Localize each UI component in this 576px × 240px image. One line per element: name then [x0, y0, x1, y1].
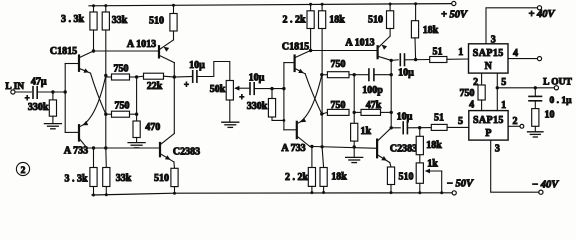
- wire: top supply rail (+50V): [89, 4, 452, 6]
- svg-text:3: 3: [491, 34, 496, 45]
- junction: R9 return at input line: [283, 119, 286, 122]
- wire: C7 to R28: [534, 101, 536, 109]
- svg-text:750: 750: [331, 100, 346, 111]
- resistor R16 510 (upper, emitter of Q7): [389, 4, 391, 11]
- svg-text:+ 40V: + 40V: [528, 9, 555, 20]
- junction: feedback column upper tap: [104, 74, 107, 77]
- svg-text:4: 4: [469, 100, 474, 111]
- wire: R27 to U2 pin4: [481, 100, 483, 111]
- wire: Q3 collector down to Q4 collector: [173, 63, 175, 134]
- svg-text:510: 510: [368, 14, 383, 25]
- svg-text:SAP15: SAP15: [473, 48, 504, 59]
- svg-text:L OUT: L OUT: [543, 78, 572, 88]
- junction: R26 18k tap: [418, 126, 421, 129]
- svg-text:18k: 18k: [426, 140, 442, 151]
- resistor R15 1k (to ground): [353, 112, 355, 123]
- svg-text:1k: 1k: [427, 158, 438, 169]
- junction: R24 18k tap: [414, 58, 417, 61]
- wire: R23 to U1 pin1: [447, 58, 469, 60]
- ground: below R7: [128, 143, 145, 148]
- svg-text:+: +: [239, 92, 244, 102]
- svg-text:1: 1: [501, 100, 506, 111]
- junction: R15 lead over collector wire: [353, 145, 356, 148]
- wire: stage1 input vertical (Q1 base to Q2 base): [64, 64, 66, 133]
- wire: node to Q7 base: [311, 50, 377, 52]
- wire: Q7 collector node to C5: [391, 59, 398, 62]
- ground: below R15: [346, 157, 363, 162]
- wire: base lead of Q5: [284, 62, 294, 64]
- ground: below R1: [44, 124, 61, 129]
- transistor Q4 C2383 (NPN driver, lower stage1): [160, 134, 174, 162]
- junction: feedback column lower tap: [104, 113, 107, 116]
- svg-text:P: P: [485, 128, 491, 139]
- wire: R11 down to stage2 feedback column: [321, 29, 323, 148]
- resistor R11 18k (upper): [321, 4, 323, 11]
- transistor Q2 A733 (PNP input, lower): [79, 121, 88, 148]
- transistor Q7 A1013 (PNP driver, stage2): [378, 36, 392, 60]
- wire: node to U-A1013 base (stage1): [94, 50, 159, 52]
- junction: Q1 collector / R2 / A1013 base node: [92, 49, 95, 52]
- transistor Q6 A733 (PNP input, stage2): [297, 118, 310, 147]
- wire: U1 pin5 to output node: [496, 73, 498, 88]
- svg-text:750: 750: [460, 88, 475, 99]
- junction: R11 at top rail: [321, 3, 324, 6]
- wire: crossover emitter Q5 to lower tap: [305, 74, 322, 114]
- wire: U2 pin3 to -40V: [491, 140, 539, 192]
- potentiometer VR2 1k (bias adjust): [416, 163, 423, 183]
- wire: Q8 collector node to C6: [391, 127, 400, 129]
- wire: U1 pin4 to terminal: [508, 58, 537, 60]
- svg-text:SAP15: SAP15: [473, 115, 504, 126]
- wire: crossover emitter Q6 to upper tap: [298, 75, 322, 123]
- svg-text:4: 4: [513, 48, 518, 59]
- potentiometer VR1 50k (volume): [226, 81, 233, 101]
- wire: U2 pin2 to terminal: [508, 125, 520, 127]
- junction: R4/R6/R5 node: [135, 75, 138, 78]
- svg-text:330k: 330k: [28, 102, 49, 113]
- svg-text:330k: 330k: [247, 101, 268, 112]
- terminal: U2 pin2: [520, 124, 524, 128]
- junction: zobel tap: [534, 86, 537, 89]
- svg-text:C1815: C1815: [50, 46, 77, 57]
- wire: U1 pin2 to R27: [481, 73, 483, 85]
- svg-text:5: 5: [458, 116, 463, 127]
- junction: stage1 output node (22k / C2 tap): [173, 75, 176, 78]
- resistor R17 3.3k (lower): [93, 148, 95, 168]
- transistor Q3 A1013 (PNP driver, upper): [159, 40, 174, 63]
- capacitor C5 10u (to SAP15N): [399, 54, 401, 66]
- svg-text:750: 750: [331, 59, 346, 70]
- wire: Q7 collector column down to Q8: [390, 60, 392, 127]
- wire: bottom supply rail (-50V): [92, 193, 452, 195]
- svg-text:10μ: 10μ: [249, 72, 265, 83]
- svg-text:50k: 50k: [210, 84, 226, 95]
- junction: R17 at bottom rail: [92, 194, 95, 197]
- resistor R5 22k: [144, 73, 164, 79]
- svg-text:18k: 18k: [329, 14, 345, 25]
- resistor R14 47k: [354, 111, 361, 113]
- resistor R28 10 (zobel): [532, 109, 539, 127]
- svg-text:33k: 33k: [116, 173, 132, 184]
- transistor Q5 C1815 (NPN input, stage2): [295, 51, 311, 74]
- wire: VR2 wiper return to rail: [441, 171, 443, 193]
- resistor R7 470 (to ground): [136, 114, 138, 121]
- svg-text:A 1013: A 1013: [345, 38, 374, 49]
- wire: C1 to input node: [37, 91, 65, 93]
- svg-text:2 . 2k: 2 . 2k: [282, 15, 306, 26]
- resistor R18 33k (lower): [105, 148, 108, 168]
- svg-text:510: 510: [399, 171, 414, 182]
- svg-text:22k: 22k: [147, 81, 163, 92]
- junction: R21 at bottom rail: [322, 191, 325, 194]
- terminal +50V: [452, 1, 456, 5]
- capacitor C2 10u (stage1 output coupling): [192, 71, 194, 82]
- wire: crossover emitter Q1 to lower feedback tap: [91, 73, 106, 114]
- svg-text:A 733: A 733: [64, 146, 88, 157]
- terminal L OUT: [554, 86, 558, 90]
- svg-text:N: N: [485, 61, 493, 72]
- wire: C3 to stage2 input node: [254, 88, 284, 90]
- junction: Q5 collector / R10 / A1013 base node: [309, 49, 312, 52]
- wire: R12 node down to R13 node: [353, 75, 355, 113]
- svg-text:1: 1: [458, 47, 463, 58]
- capacitor C4 100p: [354, 74, 369, 76]
- wire: input terminal to C1 47u: [15, 91, 31, 93]
- svg-text:C1815: C1815: [282, 42, 309, 53]
- junction: VR2 at bottom rail: [418, 191, 421, 194]
- junction: Q8 collector / C6 node: [390, 126, 393, 129]
- svg-text:470: 470: [145, 122, 160, 133]
- wire: C2 to volume pot (up and over): [197, 62, 230, 81]
- svg-text:51: 51: [434, 112, 444, 123]
- junction: stage2 column lower tap: [320, 112, 323, 115]
- resistor R19 510 (emitter of Q4): [173, 162, 176, 168]
- svg-text:18k: 18k: [423, 25, 439, 36]
- ground: below R28: [528, 132, 544, 137]
- svg-text:750: 750: [115, 101, 130, 112]
- resistor R22 510 (emitter of Q8): [390, 163, 391, 167]
- wiper arrow of VR1: [236, 87, 250, 89]
- junction: R14 right at column: [390, 111, 393, 114]
- svg-text:3 . 3k: 3 . 3k: [61, 14, 85, 25]
- junction: R12 / C4 node: [353, 73, 356, 76]
- terminal -40V: [539, 190, 543, 194]
- wire: R4 node down to R6 node: [136, 77, 138, 114]
- junction: R13/R14/R15 node: [353, 111, 356, 114]
- wire: VR1 bottom to ground: [229, 100, 231, 122]
- wire: R25 to U2 pin5: [447, 126, 469, 128]
- svg-text:2: 2: [473, 77, 478, 88]
- wire: base lead of Q1: [65, 63, 78, 65]
- resistor R6 750 (lower feedback): [106, 113, 112, 115]
- resistor R24 18k (from +50V rail): [415, 4, 417, 21]
- ground: below VR1: [222, 122, 239, 127]
- svg-text:750: 750: [114, 64, 129, 75]
- junction: R10 at top rail: [309, 3, 312, 6]
- svg-text:100p: 100p: [362, 85, 383, 96]
- resistor R13 750 (lower feedback): [322, 112, 328, 114]
- svg-text:10: 10: [545, 109, 555, 120]
- terminal: U1 pin4: [537, 57, 541, 61]
- figure number mark (2): [16, 162, 29, 175]
- wire: U1 pin3 to +40V: [486, 8, 537, 44]
- wiper arrow of VR2: [426, 170, 442, 172]
- wire: R3 down to feedback column: [105, 30, 107, 148]
- svg-text:0 . 1μ: 0 . 1μ: [549, 96, 572, 106]
- capacitor C7 0.1u (zobel): [534, 88, 536, 96]
- resistor R1 330k (input bias): [52, 92, 54, 100]
- capacitor C3 10u (stage2 input coupling): [249, 83, 251, 95]
- wire: stage2 input vertical (Q5 base to Q6 base): [283, 63, 285, 130]
- wire: C5 to R23: [405, 59, 430, 61]
- resistor R12 750 (upper feedback): [322, 74, 328, 76]
- svg-text:5: 5: [501, 77, 506, 88]
- resistor R3 33k (upper): [105, 6, 107, 12]
- transistor Q8 C2383 (NPN driver, lower stage2): [377, 128, 391, 163]
- svg-text:1k: 1k: [361, 126, 372, 137]
- svg-text:− 40V: − 40V: [532, 180, 559, 191]
- junction: R17 tap on base row: [92, 146, 95, 149]
- junction: R20 at bottom rail: [310, 191, 313, 194]
- svg-text:3 . 3k: 3 . 3k: [64, 173, 88, 184]
- svg-text:C2383: C2383: [173, 146, 200, 157]
- capacitor C1 47u (electrolytic): [32, 87, 34, 99]
- wire: output node to L OUT: [497, 87, 554, 89]
- transistor Q1 C1815 (NPN input, upper): [79, 51, 94, 73]
- capacitor C6 10u (to SAP15P): [402, 122, 404, 134]
- wire: node to C2: [174, 76, 192, 79]
- svg-text:+: +: [184, 79, 189, 89]
- IC U1 SAP15 N (power darlington): [469, 44, 509, 73]
- junction: R6/R7 node: [135, 113, 138, 116]
- junction: R3 at top rail: [104, 4, 107, 7]
- svg-text:10μ: 10μ: [397, 111, 413, 122]
- wire: stage2 base row (Q6 collector to Q8 base): [310, 146, 377, 148]
- svg-text:510: 510: [154, 173, 169, 184]
- resistor R9 330k (stage2 bias): [271, 89, 273, 99]
- svg-text:A 1013: A 1013: [127, 39, 156, 50]
- junction: R18 tap on base row: [104, 146, 107, 149]
- terminal -50V: [452, 191, 456, 195]
- junction: input node / R1 330k tap: [51, 90, 54, 93]
- svg-text:− 50V: − 50V: [447, 179, 474, 190]
- svg-text:51: 51: [433, 46, 443, 57]
- svg-text:C2383: C2383: [390, 144, 417, 155]
- resistor R2 3.3k (upper): [93, 6, 95, 12]
- resistor R20 2.2k (lower): [311, 147, 313, 168]
- wire: R9 bottom to input line: [272, 117, 284, 120]
- resistor R25 51 (SAP15P gate): [431, 124, 447, 130]
- resistor R8 510 (upper, emitter of A1013): [173, 5, 175, 13]
- wire: collector base row (Q2 collector to Q4 base): [87, 147, 160, 149]
- resistor R21 18k (lower): [322, 147, 324, 167]
- junction: R11 column crosses base row: [320, 145, 323, 148]
- terminal +40V: [537, 6, 541, 10]
- svg-text:47k: 47k: [366, 100, 382, 111]
- junction: Q7 collector / C5 node: [390, 59, 393, 62]
- svg-text:2 . 2k: 2 . 2k: [285, 172, 309, 183]
- junction: R9 330k tap: [270, 87, 273, 90]
- junction: stage2 input tee: [282, 87, 285, 90]
- junction: stage2 column upper tap: [320, 73, 323, 76]
- svg-text:+ 50V: + 50V: [441, 10, 468, 21]
- junction: output node at pin5: [496, 86, 499, 89]
- wire: U2 pin1 up to output node: [496, 88, 498, 111]
- svg-text:2: 2: [21, 166, 26, 176]
- resistor R26 18k (bias): [419, 128, 421, 137]
- junction: R24 at top rail: [414, 2, 417, 5]
- svg-text:33k: 33k: [112, 15, 128, 26]
- junction: R19 at bottom rail: [173, 192, 176, 195]
- junction: input line tee: [63, 90, 66, 93]
- svg-text:10μ: 10μ: [189, 60, 205, 71]
- junction: C4 right at column: [390, 73, 393, 76]
- junction: R2 at top rail: [92, 4, 95, 7]
- svg-text:A 733: A 733: [281, 143, 305, 154]
- junction: R18 at bottom rail: [105, 193, 108, 196]
- terminal L IN: [11, 90, 15, 94]
- junction: R8 at top rail: [172, 4, 175, 7]
- junction: wiper return at bottom rail: [440, 191, 443, 194]
- svg-text:18k: 18k: [331, 172, 347, 183]
- junction: R16 at top rail: [389, 3, 392, 6]
- wire: base lead of Q2: [65, 131, 77, 133]
- resistor R23 51 (SAP15N gate): [430, 57, 447, 63]
- svg-text:2: 2: [513, 116, 518, 127]
- resistor R10 2.2k (upper): [310, 4, 312, 11]
- wire: crossover emitter Q2 to upper feedback tap: [81, 76, 106, 127]
- junction: R20 tap on base row: [310, 145, 313, 148]
- resistor R4 750 (upper feedback): [106, 76, 112, 78]
- junction: R22 at bottom rail: [390, 191, 393, 194]
- wire: C6 to R25: [407, 127, 431, 129]
- wire: base lead of Q6: [284, 129, 296, 131]
- svg-text:3: 3: [495, 144, 500, 155]
- resistor R27 750 (bias between modules): [478, 85, 485, 100]
- svg-text:47μ: 47μ: [31, 77, 47, 88]
- svg-text:510: 510: [149, 15, 164, 26]
- IC U2 SAP15 P (power darlington): [469, 111, 508, 141]
- svg-text:10μ: 10μ: [398, 67, 414, 78]
